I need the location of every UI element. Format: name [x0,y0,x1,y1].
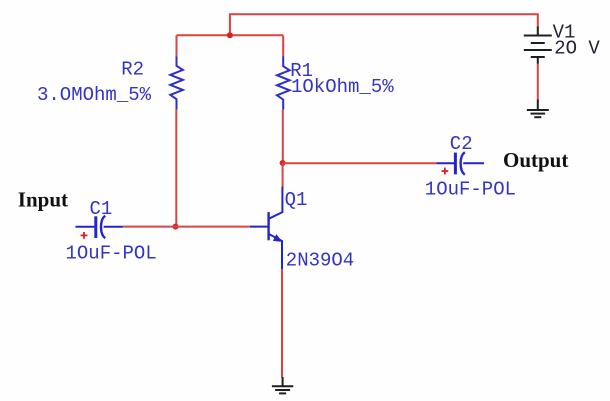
svg-text:3.OMOhm_5%: 3.OMOhm_5% [37,84,152,106]
wire upper rail R2 to R1 [177,34,284,36]
wire Q1 emitter to ground [281,269,283,378]
node C base junction dot [173,224,179,230]
wire R1 bottom to collector junction [282,110,284,163]
resistor R2 [170,57,183,110]
collector pin [269,187,283,219]
battery V1 [524,27,552,64]
svg-text:1OuF-POL: 1OuF-POL [66,242,157,264]
C1 plus polarity mark [81,232,88,239]
svg-text:C1: C1 [90,198,113,220]
svg-text:Input: Input [18,187,68,211]
svg-text:2N39O4: 2N39O4 [286,249,354,271]
svg-text:Output: Output [503,148,568,172]
Q1 emitter arrow [274,235,282,241]
node A junction dot [227,32,233,38]
svg-text:C2: C2 [450,133,473,155]
capacitor C1 [76,216,123,239]
svg-text:1OkOhm_5%: 1OkOhm_5% [291,76,394,98]
ground below Q1 emitter [272,377,293,393]
wire R2 top lead drop [176,35,178,57]
ground below battery [527,100,549,118]
node B collector junction dot [280,160,286,166]
svg-text:R2: R2 [121,59,144,81]
svg-text:2O V: 2O V [554,38,600,60]
wire C1 to Q1 base [123,226,250,228]
wire R2 bottom to base junction [175,110,177,227]
emitter pin [269,234,282,269]
resistor R1 [277,57,290,110]
svg-text:Q1: Q1 [285,189,308,211]
wire collector junction down to Q1 [282,163,284,188]
transistor Q1 [250,187,283,269]
wire collector junction to C2 [283,162,437,164]
C2 plus polarity mark [442,168,449,175]
base pin [250,226,269,228]
wire top rail from node A to battery V1 [230,14,538,35]
wire R1 top lead drop [282,35,284,57]
capacitor C2 [436,152,484,175]
wire battery V1 to ground [537,63,539,101]
base bar [267,212,269,240]
svg-text:1OuF-POL: 1OuF-POL [425,178,516,200]
